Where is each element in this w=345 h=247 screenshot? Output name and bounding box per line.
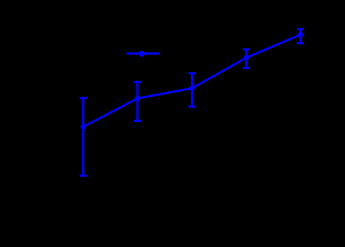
- errorbar 1 bottom cap: [80, 175, 87, 177]
- errorbar 2 top cap: [134, 81, 141, 83]
- errorbar 2 stem: [136, 82, 138, 121]
- errorbar 3 bottom cap: [189, 105, 196, 107]
- data point 2: [135, 96, 140, 101]
- errorbar 3 stem: [191, 73, 193, 106]
- data polyline: [83, 35, 300, 127]
- errorbar 3 top cap: [189, 72, 196, 74]
- errorbar 5 top cap: [297, 28, 304, 30]
- errorbar 1 top cap: [80, 97, 87, 99]
- data point 3: [189, 86, 194, 91]
- errorbar 4 top cap: [243, 48, 250, 50]
- errorbar 4 bottom cap: [243, 67, 250, 69]
- errorbar 2 bottom cap: [134, 120, 141, 122]
- data point 5: [298, 32, 303, 37]
- errorbar 4 stem: [245, 49, 247, 68]
- data point 4: [244, 55, 249, 60]
- data point 1: [81, 124, 86, 129]
- legend sample line: [127, 52, 160, 54]
- errorbar 5 bottom cap: [297, 42, 304, 44]
- legend point marker: [139, 51, 145, 57]
- errorbar 5 stem: [299, 29, 301, 43]
- errorbar 1 stem: [82, 98, 84, 176]
